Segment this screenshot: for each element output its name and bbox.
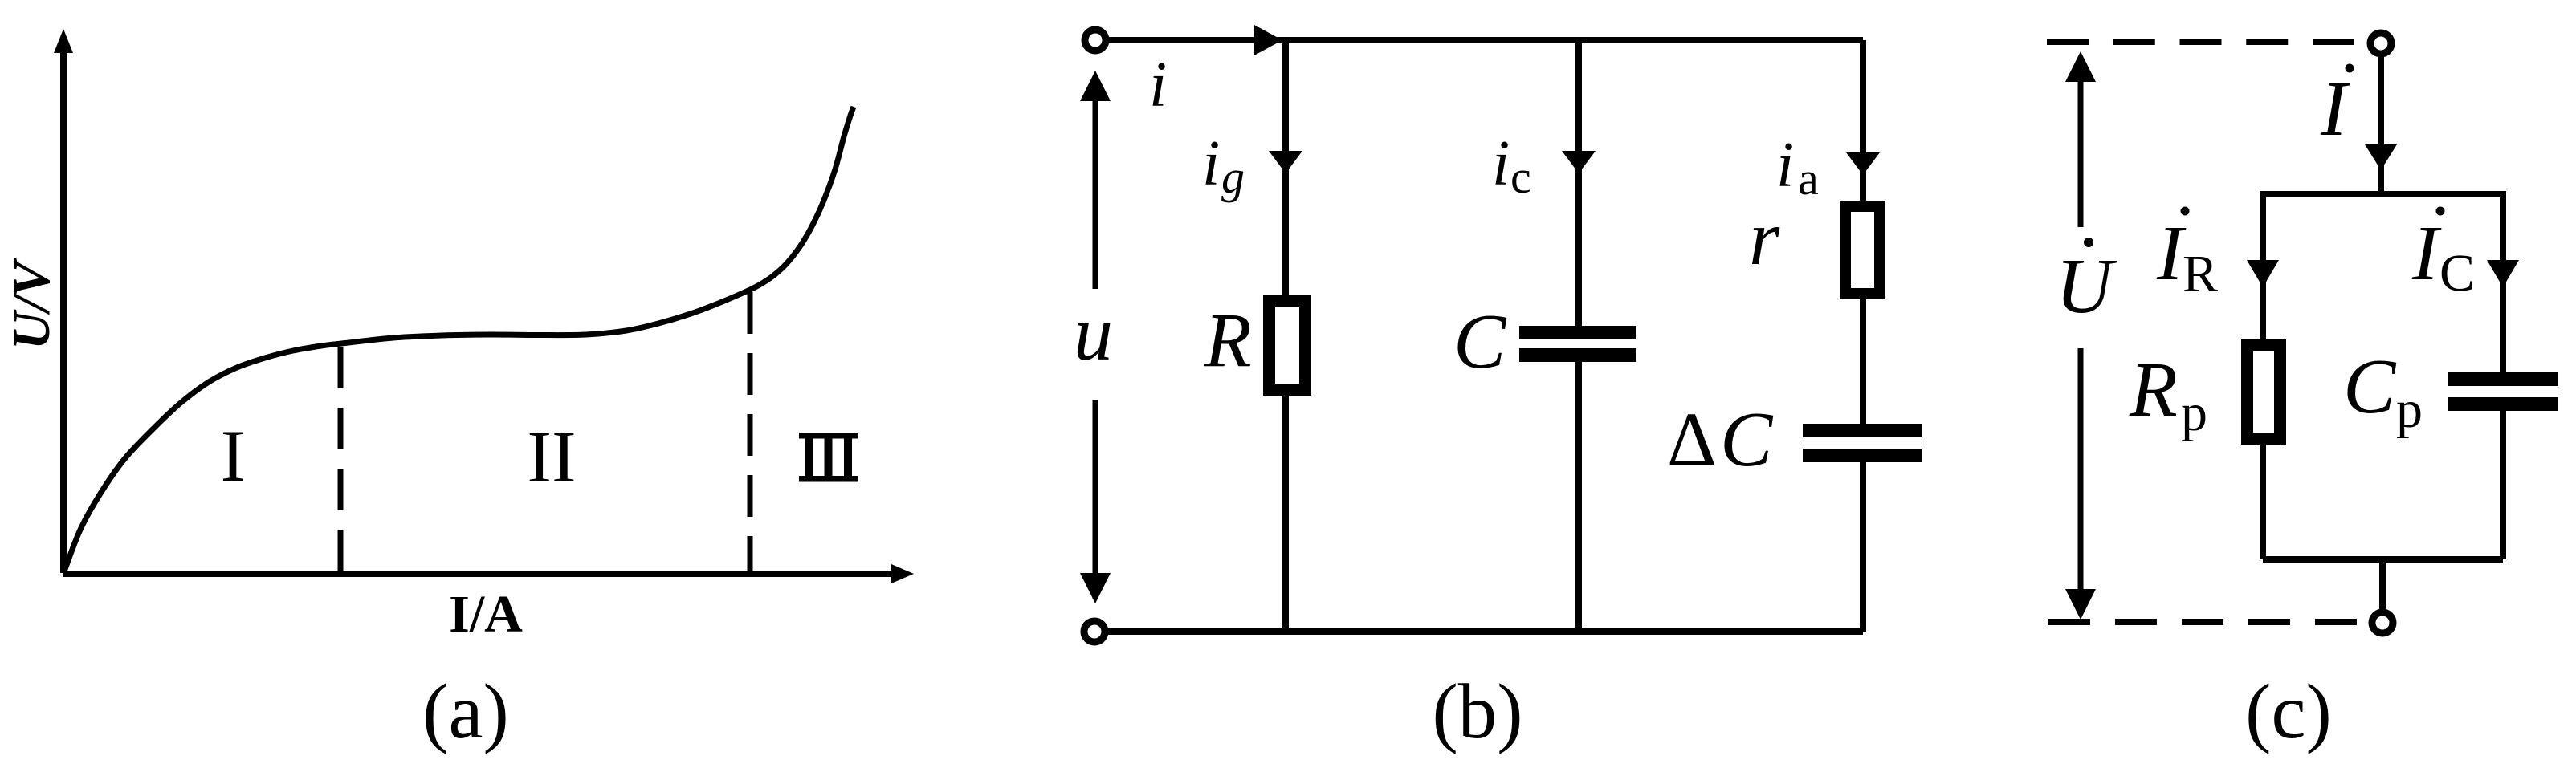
dashed line top (2047, 39, 2354, 45)
current arrow I_C (2487, 260, 2519, 287)
resistor r (1845, 206, 1880, 294)
branch Rp wire (2260, 191, 2266, 343)
capacitor dC (1803, 424, 1922, 437)
svg-text:i: i (1492, 128, 1510, 199)
dimension arrow U (2065, 51, 2096, 620)
terminal bottom-left (1084, 621, 1105, 642)
terminal bottom (2372, 612, 2393, 633)
svg-text:i: i (1202, 128, 1220, 199)
svg-text:a: a (1798, 152, 1819, 205)
svg-text:r: r (1749, 195, 1780, 282)
region boundary dashed line 1 (338, 347, 344, 571)
svg-text:I/A: I/A (449, 585, 523, 644)
svg-text:(b): (b) (1432, 668, 1522, 754)
svg-text:(c): (c) (2245, 668, 2332, 754)
svg-text:I: I (2320, 66, 2350, 152)
svg-text:C: C (1720, 396, 1774, 483)
branch R wire (1282, 40, 1289, 299)
y-axis (54, 29, 73, 573)
dashed line bottom (2048, 619, 2357, 625)
branch C wire (1575, 40, 1582, 327)
branch r+dC wire (1860, 40, 1866, 204)
label U dot (2084, 238, 2093, 247)
label I dot (2346, 64, 2354, 73)
svg-text:C: C (1453, 299, 1507, 385)
svg-text:C: C (2343, 343, 2397, 430)
svg-text:C: C (2439, 244, 2475, 303)
svg-text:R: R (1204, 297, 1252, 383)
current arrow i_c (1562, 151, 1596, 173)
svg-text:p: p (2396, 380, 2423, 439)
region boundary dashed line 2 (748, 292, 753, 571)
wire top (1109, 37, 1863, 43)
region label III (799, 433, 858, 482)
svg-text:i: i (1776, 130, 1794, 201)
svg-text:u: u (1074, 291, 1113, 377)
box bottom wire (2263, 556, 2503, 563)
svg-text:U: U (2056, 243, 2117, 330)
svg-text:I: I (2411, 210, 2442, 297)
svg-text:II: II (527, 416, 576, 498)
svg-text:R: R (2129, 347, 2178, 433)
curve (64, 107, 854, 571)
current arrow i_g (1269, 151, 1302, 173)
svg-text:I: I (221, 415, 246, 497)
box top wire (2263, 191, 2503, 197)
current arrow i_a (1846, 152, 1880, 175)
capacitor C (1519, 326, 1636, 339)
resistor Rp (2248, 346, 2280, 439)
capacitor Cp (2448, 372, 2558, 386)
resistor R (1270, 302, 1306, 390)
svg-text:p: p (2181, 384, 2207, 442)
bottom stub wire (2379, 559, 2386, 612)
branch Cp wire (2500, 191, 2506, 372)
svg-text:U/V: U/V (2, 258, 61, 350)
svg-text:(a): (a) (422, 668, 509, 754)
svg-text:R: R (2183, 245, 2218, 303)
label I_C dot (2436, 207, 2445, 216)
current arrow I (2365, 144, 2397, 170)
label I_R dot (2181, 207, 2190, 216)
current arrow I_R (2247, 260, 2279, 287)
wire bottom (1108, 628, 1863, 635)
current arrow i (1254, 25, 1282, 55)
wire I (2378, 55, 2384, 194)
svg-text:Δ: Δ (1667, 396, 1717, 482)
voltage arrow u (1080, 71, 1111, 603)
svg-text:i: i (1149, 50, 1167, 120)
terminal top-left (1085, 30, 1106, 51)
svg-text:c: c (1510, 151, 1531, 203)
svg-text:g: g (1221, 151, 1245, 203)
terminal top (2370, 33, 2391, 54)
x-axis (63, 564, 914, 583)
